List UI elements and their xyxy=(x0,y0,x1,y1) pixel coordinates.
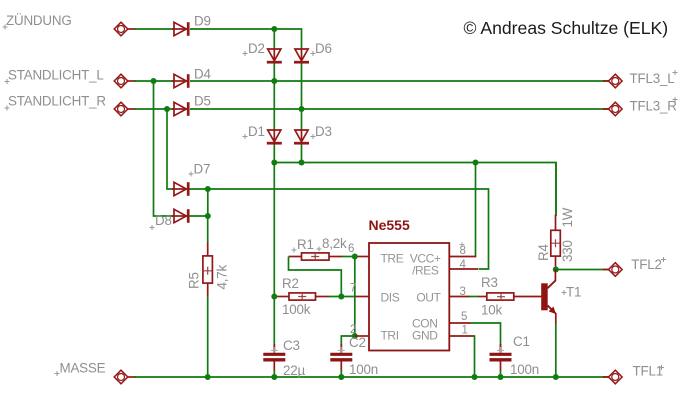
node junction ZUENDUNG/D2 xyxy=(271,26,277,32)
wire C1 top stub xyxy=(500,344,502,354)
svg-text:OUT: OUT xyxy=(416,291,441,305)
diode D1 xyxy=(267,130,282,143)
wire STANDLICHT_L pin stub xyxy=(127,80,137,82)
wire R row D5 cathode to TFL3_R xyxy=(190,108,609,110)
label D2 xyxy=(243,41,265,56)
wire D9 cathode to D6 top corner xyxy=(190,29,302,50)
resistor R5 xyxy=(203,256,213,283)
wire D2 anode drop xyxy=(273,29,275,50)
wire junction down to R5 xyxy=(207,216,209,243)
svg-text:22µ: 22µ xyxy=(283,363,305,378)
svg-text:ZÜNDUNG: ZÜNDUNG xyxy=(6,13,72,28)
wire R5 top stub xyxy=(207,243,209,257)
capacitor C3 xyxy=(263,347,285,360)
transistor Q1 T1 xyxy=(541,270,556,315)
svg-text:D4: D4 xyxy=(194,67,211,82)
svg-text:TRI: TRI xyxy=(381,329,399,343)
node junction D7 cathode xyxy=(205,186,211,192)
pin TFL2 xyxy=(609,263,623,277)
node junction L row D2/D1 xyxy=(271,78,277,84)
wire D7 junction down to D8 junction xyxy=(207,189,209,216)
svg-text:C3: C3 xyxy=(283,338,300,353)
svg-text:1W: 1W xyxy=(560,207,575,227)
svg-text:D1: D1 xyxy=(248,124,265,139)
wire D2 cathode to L row xyxy=(273,63,275,81)
wire D8 cathode to junction xyxy=(190,215,208,217)
node junction pin6/R1 xyxy=(352,254,358,260)
pin TFL1 xyxy=(609,370,623,384)
wire R junction down to D7 anode xyxy=(167,109,173,189)
svg-text:4: 4 xyxy=(460,259,467,271)
wire D7 cathode to junction xyxy=(190,188,208,190)
svg-text:C1: C1 xyxy=(513,334,530,349)
node junction MASSE C3 xyxy=(271,374,277,380)
wire R5 bottom stub xyxy=(207,283,209,297)
label D8 xyxy=(150,213,172,230)
node junction supply net at D3 xyxy=(299,160,305,166)
wire DIS row green xyxy=(329,296,355,298)
label D3 xyxy=(311,124,332,139)
svg-text:TFL2: TFL2 xyxy=(631,257,661,272)
svg-text:TFL3_L: TFL3_L xyxy=(630,71,675,86)
wire reset net D7 row to pin 4 xyxy=(208,189,489,269)
label D1 xyxy=(243,124,265,139)
resistor R3 xyxy=(487,293,514,301)
svg-text:STANDLICHT_L: STANDLICHT_L xyxy=(8,68,104,83)
svg-text:© Andreas Schultze (ELK): © Andreas Schultze (ELK) xyxy=(464,18,669,38)
wire D3 anode drop xyxy=(301,109,303,130)
pin TFL3_R xyxy=(609,102,623,116)
wire C2 bottom to MASSE xyxy=(340,361,342,371)
wire TFL2 row xyxy=(556,269,609,271)
node junction L row to D8 xyxy=(151,78,157,84)
svg-text:DIS: DIS xyxy=(381,291,400,305)
svg-text:MASSE: MASSE xyxy=(60,361,106,376)
wire R2 left red stub xyxy=(276,296,291,298)
svg-text:GND: GND xyxy=(412,329,438,343)
svg-text:D7: D7 xyxy=(194,162,211,177)
wire supply net horizontal to R4 xyxy=(274,163,556,216)
node junction MASSE C2 xyxy=(338,374,344,380)
node junction MASSE R5 xyxy=(205,374,211,380)
node junction R4/T1/TFL2 xyxy=(553,267,559,273)
op-amp U1 NE555 box xyxy=(369,243,449,351)
diode D8 xyxy=(172,209,188,223)
label TFL2 xyxy=(631,257,666,272)
svg-text:100n: 100n xyxy=(510,362,539,377)
wire TFL3_R pin stub xyxy=(603,108,610,110)
node junction D8 cathode xyxy=(205,213,211,219)
svg-text:/RES: /RES xyxy=(412,264,439,278)
resistor R4 xyxy=(551,230,561,256)
resistor R1 xyxy=(302,253,330,260)
wire R1 right red stub xyxy=(329,256,343,258)
wire pin 2 red stub xyxy=(355,335,369,337)
node junction MASSE pin1 xyxy=(472,374,478,380)
capacitor C2 xyxy=(330,347,352,360)
wire D1 anode drop xyxy=(273,81,275,130)
svg-text:D9: D9 xyxy=(194,14,211,29)
svg-text:1: 1 xyxy=(462,325,468,337)
diode D6 xyxy=(294,49,309,62)
label TFL3_R xyxy=(630,97,678,114)
wire pin 1 red stub xyxy=(449,335,473,337)
svg-text:8,2k: 8,2k xyxy=(322,236,347,251)
wire R4 feed green xyxy=(555,163,557,217)
svg-text:6: 6 xyxy=(348,243,354,255)
label T1 xyxy=(562,285,582,300)
svg-text:D2: D2 xyxy=(248,41,265,56)
wire pin 6 red stub xyxy=(355,256,369,258)
svg-text:R2: R2 xyxy=(282,276,299,291)
node junction MASSE C1 xyxy=(498,374,504,380)
label STANDLICHT_L xyxy=(5,68,104,85)
label D7 xyxy=(189,162,211,177)
svg-text:R5: R5 xyxy=(187,272,202,289)
wire pin 3 red stub xyxy=(449,296,470,298)
wire STANDLICHT_L to D4 anode xyxy=(134,80,175,82)
pin ZUENDUNG xyxy=(114,22,128,36)
svg-text:2: 2 xyxy=(350,324,356,336)
node junction R row to D7 xyxy=(164,106,170,112)
svg-text:T1: T1 xyxy=(566,285,581,300)
wire pin2 over to C2 xyxy=(341,336,355,352)
svg-text:100n: 100n xyxy=(349,362,378,377)
wire VCC drop to pin 8 xyxy=(475,163,477,257)
diode D9 xyxy=(172,22,188,36)
wire pin 4 red stub xyxy=(449,268,478,270)
node junction R2 left on column xyxy=(271,294,277,300)
node junction supply net at D1 xyxy=(271,160,277,166)
wire D6 cathode to R row xyxy=(301,63,303,109)
wire L junction down to D8 anode xyxy=(154,81,174,216)
diode D5 xyxy=(172,102,188,116)
diode D2 xyxy=(267,49,282,62)
wire R1 right to pin6 node xyxy=(342,256,355,258)
svg-text:TRE: TRE xyxy=(381,252,404,266)
svg-text:7: 7 xyxy=(350,283,356,295)
svg-text:D8: D8 xyxy=(155,213,172,228)
resistor R2 xyxy=(289,293,316,301)
wire pin 7 red stub xyxy=(355,296,369,298)
pin TFL3_L xyxy=(609,74,623,88)
diode D3 xyxy=(294,130,309,143)
label R1 xyxy=(292,237,314,253)
svg-text:C2: C2 xyxy=(349,335,366,350)
node junction MASSE T1 emitter xyxy=(553,374,559,380)
label ZUENDUNG xyxy=(3,13,72,30)
wire TFL1 pin stub xyxy=(603,376,610,378)
wire ZUENDUNG row to D9 anode xyxy=(134,28,175,30)
wire TFL2 pin stub xyxy=(603,269,610,271)
svg-text:STANDLICHT_R: STANDLICHT_R xyxy=(8,94,106,109)
wire R3 left red stub xyxy=(479,296,489,298)
label STANDLICHT_R xyxy=(5,94,107,111)
wire C3 bottom to MASSE xyxy=(273,361,275,371)
svg-text:D3: D3 xyxy=(315,124,332,139)
wire C2 top stub xyxy=(340,344,342,354)
svg-text:10k: 10k xyxy=(481,303,502,318)
svg-text:R4: R4 xyxy=(536,244,551,261)
node junction supply net to VCC xyxy=(473,160,479,166)
svg-text:R3: R3 xyxy=(481,275,498,290)
label MASSE xyxy=(55,361,106,377)
wire TFL3_L pin stub xyxy=(603,80,610,82)
wire MASSE row xyxy=(134,376,609,378)
svg-text:Ne555: Ne555 xyxy=(369,217,410,233)
wire pin 8 red stub xyxy=(449,256,476,258)
svg-text:8: 8 xyxy=(460,245,466,257)
wire pin 1 to MASSE xyxy=(473,336,475,377)
wire pin 5 to C1 xyxy=(471,323,501,352)
value 8,2k xyxy=(317,236,348,252)
svg-text:TFL3_R: TFL3_R xyxy=(630,99,678,114)
wire pin6 node down to pin2 xyxy=(354,257,356,337)
svg-text:D6: D6 xyxy=(315,41,332,56)
pin STANDLICHT_L xyxy=(114,74,128,88)
svg-text:TFL1: TFL1 xyxy=(633,364,663,379)
wire C3 top stub xyxy=(273,344,275,354)
svg-text:4,7k: 4,7k xyxy=(215,264,230,289)
wire STANDLICHT_R pin stub xyxy=(127,108,137,110)
svg-text:5: 5 xyxy=(461,311,467,323)
pin MASSE xyxy=(114,370,128,384)
wire R2 right red stub xyxy=(316,296,330,298)
wire MASSE pin stub xyxy=(127,376,137,378)
wire D3 cathode to supply net xyxy=(301,144,303,163)
node junction pin2/C2 xyxy=(352,333,358,339)
wire R4 bottom stub xyxy=(555,256,557,270)
capacitor C1 xyxy=(490,347,512,360)
wire L row D4 cathode to TFL3_L xyxy=(190,80,609,82)
diode D4 xyxy=(172,74,188,88)
wire pin 5 red stub xyxy=(449,322,471,324)
wire R3 right to T1 base xyxy=(514,296,542,298)
label TFL1 xyxy=(633,364,665,379)
node junction R row D6/D3 xyxy=(299,106,305,112)
wire R5 to MASSE xyxy=(207,296,209,377)
svg-text:D5: D5 xyxy=(194,94,211,109)
wire ZUENDUNG row pin stub xyxy=(127,28,137,30)
wire C1 bottom to MASSE xyxy=(500,361,502,371)
label D6 xyxy=(311,41,332,56)
pin STANDLICHT_R xyxy=(114,102,128,116)
wire R1 left bypass to DIS node xyxy=(289,257,342,297)
wire pin 3 to R3 xyxy=(470,296,480,298)
label TFL3_L xyxy=(630,70,678,86)
svg-text:R1: R1 xyxy=(297,237,314,252)
wire STANDLICHT_R to D5 anode xyxy=(134,108,175,110)
svg-text:100k: 100k xyxy=(282,302,311,317)
wire T1 emitter down to MASSE xyxy=(555,313,557,324)
diode D7 xyxy=(172,182,188,196)
svg-text:3: 3 xyxy=(460,286,466,298)
wire R4 top stub xyxy=(555,215,557,231)
svg-text:330: 330 xyxy=(560,240,575,262)
node junction DIS R1/R2 xyxy=(338,294,344,300)
wire R1 left red stub xyxy=(289,256,303,258)
IC origin cross xyxy=(460,242,465,247)
wire D1 cathode to supply net xyxy=(273,144,275,163)
wire column D1 down to R2/C3 xyxy=(273,163,275,352)
